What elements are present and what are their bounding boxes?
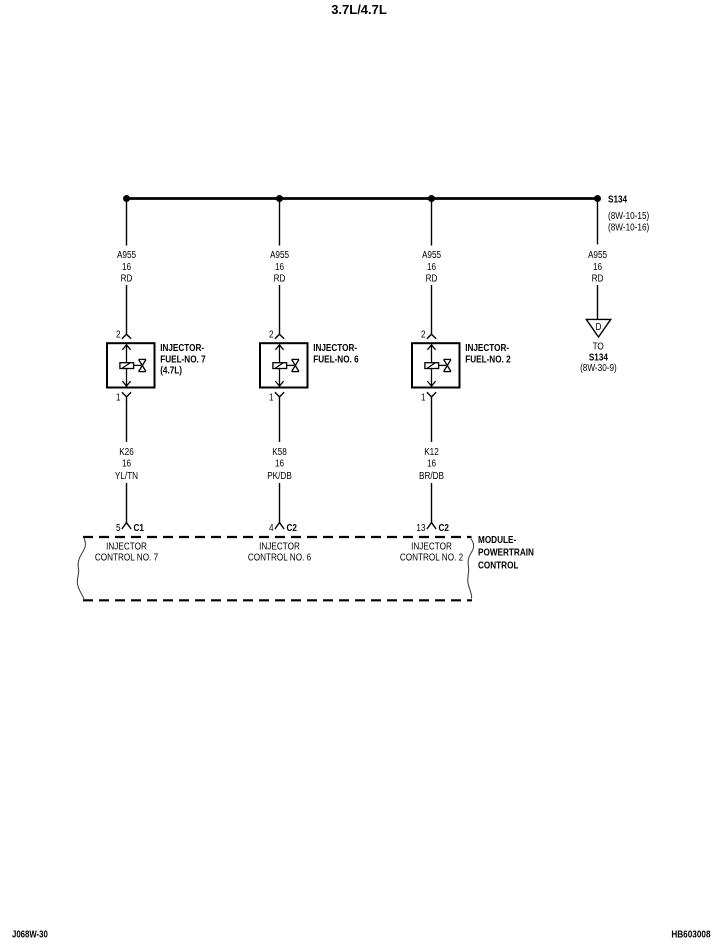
wire K12 lower segment bbox=[431, 483, 433, 522]
svg-text:POWERTRAIN: POWERTRAIN bbox=[478, 546, 534, 558]
injector FUEL-NO. 7 coil bbox=[120, 363, 134, 369]
injector FUEL-NO. 7 arrow out (down) bbox=[122, 381, 130, 386]
svg-text:2: 2 bbox=[116, 327, 121, 339]
wire label A955 16 RD branch 2 bbox=[270, 248, 289, 284]
svg-text:K26: K26 bbox=[119, 445, 134, 457]
svg-text:A955: A955 bbox=[270, 248, 289, 260]
connector chevron pin 1 branch 2 bbox=[275, 392, 284, 397]
svg-text:D: D bbox=[595, 320, 601, 332]
svg-text:13: 13 bbox=[416, 521, 425, 533]
wire A955 branch 2 lower segment bbox=[279, 285, 281, 334]
svg-text:16: 16 bbox=[593, 260, 602, 272]
svg-text:CONTROL NO. 2: CONTROL NO. 2 bbox=[400, 550, 463, 562]
wire A955 bus (horizontal feed) bbox=[127, 197, 598, 200]
wire label K26 16 YL/TN bbox=[115, 445, 138, 481]
svg-text:HB603008: HB603008 bbox=[671, 929, 710, 940]
connector chevron pin 2 branch 1 bbox=[122, 334, 131, 339]
svg-text:16: 16 bbox=[427, 260, 436, 272]
wire A955 branch 2 upper segment bbox=[279, 200, 281, 246]
injector FUEL-NO. 6 coil bbox=[273, 363, 287, 369]
wire A955 to S134 upper segment bbox=[597, 199, 599, 245]
injector FUEL-NO. 7 arrow in (up) bbox=[122, 345, 130, 350]
injector FUEL-NO. 7 label bbox=[160, 341, 205, 376]
svg-text:RD: RD bbox=[121, 272, 133, 284]
svg-text:16: 16 bbox=[122, 456, 131, 468]
svg-text:CONTROL: CONTROL bbox=[478, 558, 519, 570]
off-page connector D (triangle) bbox=[586, 319, 610, 337]
wire label A955 16 RD branch 3 bbox=[422, 248, 441, 284]
connector chevron pin 13 C2 bbox=[427, 523, 436, 529]
junction splice dot branch 2 bbox=[276, 195, 283, 202]
svg-text:1: 1 bbox=[116, 390, 121, 402]
injector FUEL-NO. 2 internal wire bbox=[431, 345, 433, 387]
injector FUEL-NO. 6 arrow out (down) bbox=[275, 381, 283, 386]
svg-text:FUEL-NO. 2: FUEL-NO. 2 bbox=[465, 352, 510, 364]
wire label A955 16 RD (S134 branch) bbox=[588, 248, 607, 284]
injector FUEL-NO. 2 coil bbox=[425, 363, 439, 369]
connector chevron pin 5 C1 bbox=[122, 523, 131, 529]
wire K58 upper segment bbox=[279, 397, 281, 442]
wire A955 branch 3 upper segment bbox=[431, 200, 433, 246]
wire label K12 16 BR/DB bbox=[419, 445, 444, 481]
node label TO S134 (8W-30-9) bbox=[580, 340, 617, 374]
connector chevron pin 1 branch 3 bbox=[427, 392, 436, 397]
svg-text:C1: C1 bbox=[134, 521, 144, 533]
injector FUEL-NO. 2 arrow in (up) bbox=[427, 345, 435, 350]
svg-text:16: 16 bbox=[275, 260, 284, 272]
junction splice dot branch 1 bbox=[123, 195, 130, 202]
injector FUEL-NO. 7 internal wire bbox=[126, 345, 128, 387]
svg-text:C2: C2 bbox=[287, 521, 297, 533]
injector FUEL-NO. 6 label bbox=[313, 341, 358, 365]
svg-text:(8W-10-16): (8W-10-16) bbox=[608, 220, 649, 232]
connector chevron pin 4 C2 bbox=[275, 523, 284, 529]
module-powertrain control box bottom dashed edge bbox=[83, 599, 472, 601]
connector chevron pin 1 branch 1 bbox=[122, 392, 131, 397]
injector FUEL-NO. 2 valve (hourglass) bbox=[444, 359, 452, 371]
svg-text:YL/TN: YL/TN bbox=[115, 469, 138, 481]
injector FUEL-NO. 2 valve link bbox=[439, 364, 447, 366]
junction dot at S134 bbox=[594, 195, 601, 202]
svg-text:K58: K58 bbox=[272, 445, 287, 457]
svg-text:(8W-10-15): (8W-10-15) bbox=[608, 209, 649, 221]
connector chevron pin 2 branch 2 bbox=[275, 334, 284, 339]
wire A955 to S134 lower segment bbox=[597, 285, 599, 319]
svg-text:J068W-30: J068W-30 bbox=[12, 929, 48, 940]
svg-text:CONTROL NO. 6: CONTROL NO. 6 bbox=[248, 550, 311, 562]
injector FUEL-NO. 2 box bbox=[412, 343, 460, 387]
injector FUEL-NO. 6 valve (hourglass) bbox=[292, 359, 300, 371]
svg-text:16: 16 bbox=[275, 456, 284, 468]
wire A955 branch 3 lower segment bbox=[431, 285, 433, 334]
module-powertrain control box top dashed edge bbox=[83, 536, 472, 538]
svg-text:(8W-30-9): (8W-30-9) bbox=[580, 361, 617, 373]
svg-text:3.7L/4.7L: 3.7L/4.7L bbox=[331, 2, 387, 17]
injector FUEL-NO. 6 internal wire bbox=[279, 345, 281, 387]
injector FUEL-NO. 7 valve (hourglass) bbox=[139, 359, 147, 371]
svg-text:4: 4 bbox=[269, 521, 274, 533]
injector FUEL-NO. 6 arrow in (up) bbox=[275, 345, 283, 350]
injector FUEL-NO. 7 valve link bbox=[134, 364, 142, 366]
injector FUEL-NO. 6 box bbox=[260, 343, 308, 387]
wire label A955 16 RD branch 1 bbox=[117, 248, 136, 284]
svg-text:FUEL-NO. 6: FUEL-NO. 6 bbox=[313, 352, 358, 364]
svg-text:RD: RD bbox=[426, 272, 438, 284]
wire A955 branch 1 upper segment bbox=[126, 200, 128, 246]
svg-text:BR/DB: BR/DB bbox=[419, 469, 444, 481]
svg-text:RD: RD bbox=[592, 272, 604, 284]
module reference designator MODULE-POWERTRAIN CONTROL bbox=[478, 533, 534, 570]
module box left torn edge bbox=[77, 539, 85, 600]
svg-text:2: 2 bbox=[421, 327, 426, 339]
wire K26 upper segment bbox=[126, 397, 128, 442]
svg-text:A955: A955 bbox=[117, 248, 136, 260]
injector FUEL-NO. 2 label bbox=[465, 341, 510, 365]
connector chevron pin 2 branch 3 bbox=[427, 334, 436, 339]
svg-text:C2: C2 bbox=[439, 521, 449, 533]
svg-text:RD: RD bbox=[274, 272, 286, 284]
junction splice dot branch 3 bbox=[428, 195, 435, 202]
svg-text:1: 1 bbox=[269, 390, 274, 402]
injector FUEL-NO. 6 valve link bbox=[287, 364, 295, 366]
svg-text:16: 16 bbox=[427, 456, 436, 468]
injector FUEL-NO. 2 arrow out (down) bbox=[427, 381, 435, 386]
svg-text:S134: S134 bbox=[608, 193, 628, 205]
wire label K58 16 PK/DB bbox=[267, 445, 292, 481]
module box right torn edge bbox=[468, 539, 474, 599]
svg-text:CONTROL NO. 7: CONTROL NO. 7 bbox=[95, 550, 158, 562]
node label INJECTOR CONTROL NO. 2 bbox=[400, 539, 463, 562]
injector FUEL-NO. 7 box bbox=[107, 343, 155, 387]
node label INJECTOR CONTROL NO. 7 bbox=[95, 539, 158, 562]
svg-text:PK/DB: PK/DB bbox=[267, 469, 292, 481]
wire K12 upper segment bbox=[431, 397, 433, 442]
svg-text:A955: A955 bbox=[588, 248, 607, 260]
wire K58 lower segment bbox=[279, 483, 281, 522]
svg-text:5: 5 bbox=[116, 521, 121, 533]
svg-text:16: 16 bbox=[122, 260, 131, 272]
svg-text:2: 2 bbox=[269, 327, 274, 339]
svg-text:MODULE-: MODULE- bbox=[478, 533, 516, 545]
node label INJECTOR CONTROL NO. 6 bbox=[248, 539, 311, 562]
svg-text:(4.7L): (4.7L) bbox=[160, 364, 182, 376]
wire K26 lower segment bbox=[126, 483, 128, 522]
svg-text:K12: K12 bbox=[424, 445, 439, 457]
svg-text:1: 1 bbox=[421, 390, 426, 402]
svg-text:A955: A955 bbox=[422, 248, 441, 260]
wire A955 branch 1 lower segment bbox=[126, 285, 128, 334]
